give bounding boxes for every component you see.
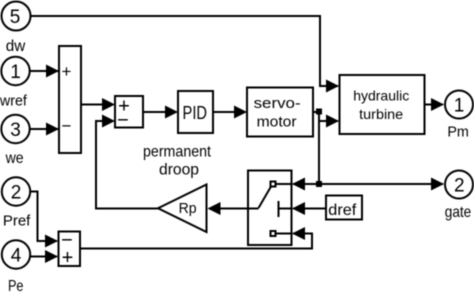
svg-text:−: − bbox=[62, 117, 72, 136]
svg-text:dw: dw bbox=[6, 38, 26, 55]
svg-text:PID: PID bbox=[183, 103, 208, 123]
svg-text:dref: dref bbox=[328, 202, 357, 219]
svg-text:turbine: turbine bbox=[359, 106, 403, 122]
svg-text:+: + bbox=[62, 62, 72, 81]
svg-text:wref: wref bbox=[0, 92, 28, 109]
svg-text:permanent: permanent bbox=[143, 144, 211, 161]
svg-text:Rp: Rp bbox=[179, 200, 197, 217]
svg-text:5: 5 bbox=[10, 7, 21, 28]
svg-text:3: 3 bbox=[10, 120, 21, 141]
svg-text:we: we bbox=[5, 150, 24, 167]
svg-text:hydraulic: hydraulic bbox=[353, 88, 409, 104]
svg-text:1: 1 bbox=[454, 95, 465, 116]
svg-text:droop: droop bbox=[159, 162, 199, 179]
svg-text:gate: gate bbox=[445, 204, 472, 221]
svg-text:Pref: Pref bbox=[3, 213, 31, 230]
svg-text:−: − bbox=[61, 230, 73, 252]
svg-text:−: − bbox=[117, 110, 129, 132]
svg-text:4: 4 bbox=[11, 245, 22, 266]
svg-text:1: 1 bbox=[10, 62, 21, 83]
svg-text:2: 2 bbox=[454, 176, 465, 197]
svg-text:motor: motor bbox=[257, 114, 297, 131]
svg-text:Pm: Pm bbox=[447, 124, 469, 141]
svg-text:Pe: Pe bbox=[8, 278, 24, 292]
svg-text:2: 2 bbox=[11, 182, 22, 203]
svg-text:servo-: servo- bbox=[254, 95, 301, 112]
